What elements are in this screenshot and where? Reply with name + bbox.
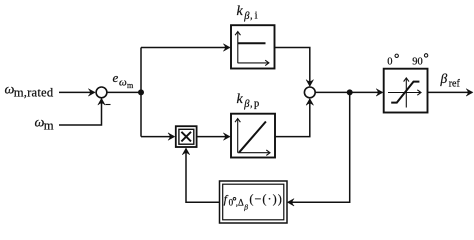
label k_beta_p (237, 92, 260, 110)
wire k_beta_i to summing junction S2 (275, 48, 310, 86)
block f gain-scheduling (double border) (220, 181, 288, 223)
label k_beta_i (237, 4, 258, 22)
node omega_m,rated input label (5, 82, 54, 99)
label 0 degrees (387, 54, 398, 67)
multiplier X (176, 126, 197, 147)
node e_omega_m label (113, 70, 135, 90)
svg-text:β: β (440, 71, 448, 86)
node beta_ref output label (440, 71, 461, 89)
junction dot e_omega_m (138, 89, 144, 95)
summing junction S2 (304, 87, 315, 98)
wire feedback from takeoff dot to block f (288, 92, 350, 202)
svg-text:i: i (255, 11, 258, 22)
wire k_beta_p to summing junction S2 (275, 99, 310, 137)
svg-text:m: m (127, 81, 134, 90)
label 90 degrees (412, 54, 428, 68)
junction dot feedback takeoff (347, 89, 353, 95)
svg-text:m,rated: m,rated (14, 85, 54, 99)
block k_beta_p (proportional gain) (231, 114, 275, 158)
svg-text:ω: ω (119, 76, 127, 88)
wire vertical branch at e (140, 48, 142, 137)
wire omega_m,rated to summing junction S1 (59, 91, 95, 93)
wire S1 to junction e (107, 91, 141, 93)
svg-text:m: m (44, 118, 54, 132)
svg-text:ref: ref (449, 79, 461, 90)
node omega_m input label (35, 115, 54, 132)
svg-text:e: e (113, 70, 119, 85)
svg-text:Δ: Δ (238, 197, 244, 207)
wire e to multiplier (141, 136, 174, 138)
wire S2 to saturation block (315, 91, 382, 93)
saturation block (384, 69, 428, 113)
wire omega_m up into summing junction S1 (59, 99, 102, 125)
wire block f to multiplier (186, 149, 220, 203)
svg-text:k: k (237, 4, 244, 19)
svg-text:(−(·)): (−(·)) (249, 192, 282, 206)
svg-text:k: k (237, 92, 244, 107)
svg-text:0: 0 (387, 56, 392, 67)
svg-text:,: , (250, 11, 253, 22)
svg-text:p: p (254, 99, 259, 110)
wire saturation to output beta_ref (428, 91, 473, 93)
wire multiplier to block k_beta_p (197, 136, 230, 138)
block k_beta_i (integral gain) (231, 25, 275, 68)
summing junction S1 (96, 87, 107, 98)
wire e to block k_beta_i (141, 47, 230, 49)
minus sign at summing junction S1 (106, 104, 111, 106)
svg-text:β: β (243, 202, 248, 211)
label f_{0,delta beta}(-( )) inside block (224, 192, 283, 212)
svg-text:,: , (250, 99, 253, 110)
svg-text:90: 90 (412, 56, 423, 67)
